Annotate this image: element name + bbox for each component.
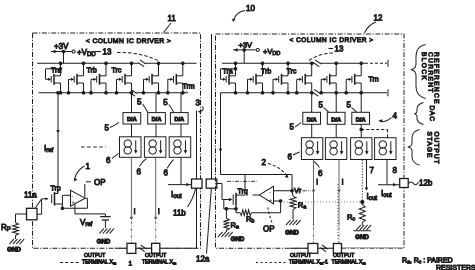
svg-text:3: 3 (196, 99, 201, 108)
current source 6 (block 11, 1st) (120, 137, 142, 158)
svg-text:< COLUMN IC DRIVER >: < COLUMN IC DRIVER > (86, 38, 171, 45)
node current source 4 tap (block 12) (360, 128, 363, 131)
transistor (block 12, 4th) (295, 62, 313, 94)
brace DAC (414, 103, 423, 125)
wire current source 4 output to pad 12b (378, 160, 400, 187)
label 12b (409, 179, 433, 188)
wire OP2 bottom input (274, 200, 281, 202)
wire bus to D/A 2 (block 12) (335, 93, 337, 113)
transistor Trn (block 12) (345, 62, 363, 94)
label 6 (block 11, left) (106, 154, 119, 166)
leader dashes (output terminal right) (256, 262, 287, 264)
label 12a (196, 189, 211, 264)
break between output pads (block 11) (139, 245, 147, 252)
svg-text:6: 6 (318, 169, 323, 178)
svg-text:Trc: Trc (112, 68, 122, 75)
svg-text:+3V: +3V (239, 41, 253, 50)
wire current source 1 output (block 11) (130, 157, 132, 217)
current source 7 (block 12, 3rd) (351, 138, 372, 160)
svg-text:13: 13 (103, 48, 112, 57)
svg-text:DAC: DAC (428, 106, 435, 122)
svg-text:6: 6 (106, 156, 111, 165)
transistor (block 11, 5th) (142, 62, 160, 94)
D/A converter 5 (block 12, 3rd) (352, 112, 370, 124)
wire current source 3 output (block 12) (362, 160, 368, 202)
brace REFERENCE CURRENT BLOCK (411, 45, 426, 99)
label OUTPUT TERMINAL Xn-1 (block 12) (289, 253, 328, 266)
wire OP1 bottom input to Vref (75, 204, 106, 214)
svg-text:OUTPUT: OUTPUT (433, 132, 440, 165)
svg-text:5: 5 (347, 101, 352, 110)
svg-text:1: 1 (86, 162, 91, 171)
wire right bus of block 11 (196, 111, 198, 249)
svg-text:-: - (72, 194, 74, 200)
svg-text:TERMINAL Xm: TERMINAL Xm (82, 260, 117, 266)
svg-text:D/A: D/A (127, 117, 137, 123)
svg-text:5: 5 (290, 123, 295, 132)
wire Trp gate bracket (41, 199, 43, 214)
wire pad 12a to Trq (217, 183, 222, 185)
node OP2 inverting input (279, 200, 282, 203)
transistor Trc (block 11) (115, 62, 133, 94)
svg-text:-: - (269, 189, 271, 195)
paired-resistor dotted link (281, 184, 361, 240)
wire bus to D/A 3 (block 11) (180, 93, 182, 113)
label DAC (428, 106, 435, 122)
current source 6 (block 11, 3rd) (169, 137, 191, 158)
svg-text:OP: OP (263, 225, 275, 234)
svg-text:GND: GND (355, 234, 369, 241)
svg-text:OUTPUT: OUTPUT (84, 253, 106, 259)
label 5 (block 12, right) (347, 101, 358, 113)
svg-text:TERMINAL Xm: TERMINAL Xm (142, 260, 177, 266)
wire line A (pad 12a to Vr) (221, 175, 293, 191)
label 1 (74, 162, 91, 182)
label 13 (block 11) (95, 48, 158, 61)
dashed wire near Trq (227, 180, 257, 182)
svg-text:OUTPUT: OUTPUT (290, 253, 312, 259)
svg-text:12a: 12a (196, 255, 210, 264)
svg-text:GND: GND (7, 247, 21, 254)
label OUTPUT STAGE (426, 132, 440, 165)
svg-text:+3V: +3V (54, 42, 69, 51)
block 12 border (COLUMN IC DRIVER) (216, 34, 405, 248)
svg-text:7: 7 (370, 166, 375, 175)
pad 12b (400, 179, 409, 188)
note Ra Rc paired resisters (402, 258, 475, 270)
label 5 (block 11, mid) (137, 98, 148, 113)
svg-text:2: 2 (262, 158, 267, 167)
D/A converter 5 (block 11, 2nd) (148, 113, 166, 124)
wire D/A to current source 2 (block 12) (335, 124, 337, 137)
svg-text:4: 4 (393, 112, 398, 121)
svg-text:Trb: Trb (87, 68, 97, 75)
gate bus (block 12) (221, 89, 389, 96)
label OUTPUT TERMINAL Xm-1 (block 11) (82, 253, 133, 268)
transistor Trm (block 11) (167, 62, 185, 94)
svg-text:< COLUMN IC DRIVER >: < COLUMN IC DRIVER > (289, 37, 373, 44)
supply +3V node (block 11) (51, 42, 96, 63)
svg-text:Tra: Tra (51, 68, 61, 75)
resistor Rb (236, 201, 281, 216)
resistor Ra (under Vr) (290, 191, 296, 220)
bottom rail (block 11) (115, 247, 197, 249)
resistor Rp (13, 214, 27, 239)
svg-text:OP: OP (94, 178, 106, 187)
ground (Rp) (7, 239, 24, 254)
resistor Rc (359, 202, 365, 226)
wire pad 11a to Trp (37, 213, 42, 215)
label OUTPUT TERMINAL Xn (block 12) (332, 253, 367, 266)
supply +3V node (block 12) (233, 41, 280, 64)
supply rail (block 12) (222, 60, 388, 67)
svg-text:10: 10 (246, 4, 255, 13)
label 5 (block 11, right) (163, 98, 173, 112)
wire OP2 top input to Vr (274, 190, 293, 192)
wire bus to D/A 1 (block 12) (311, 93, 313, 113)
label OP (block 11) (85, 178, 106, 197)
wire bus to D/A 1 (block 11) (131, 93, 133, 113)
svg-text:5: 5 (137, 98, 142, 107)
svg-text:GND: GND (231, 236, 245, 243)
label 11 (164, 14, 177, 33)
D/A converter 5 (block 11, 1st) (123, 113, 141, 124)
svg-text:6: 6 (288, 153, 293, 162)
wire Iout to pad 11b (168, 157, 192, 186)
capacitor Vref (100, 214, 110, 228)
current source 8 (block 12, 4th) (375, 138, 396, 160)
wire OP2 output stub (253, 194, 260, 196)
svg-text:Trp: Trp (51, 186, 61, 193)
svg-text:11b: 11b (173, 209, 186, 218)
svg-text:6: 6 (164, 169, 169, 178)
svg-text:5: 5 (319, 101, 324, 110)
D/A converter 5 (block 12, 1st) (303, 112, 321, 124)
svg-text:11a: 11a (24, 191, 37, 200)
leader dashes (output terminal left) (60, 262, 80, 264)
current source 6 (block 11, 2nd) (144, 137, 166, 158)
svg-text:12b: 12b (419, 179, 433, 188)
svg-text:STAGE: STAGE (426, 132, 433, 159)
node Ra junction (225, 208, 228, 211)
svg-text:Vr: Vr (294, 186, 302, 195)
transistor Tra (block 11) (46, 62, 62, 94)
svg-text:Trn: Trn (369, 77, 379, 84)
rail break (block 11) (138, 60, 146, 67)
wire D/A to current source 3 (block 12) (360, 124, 362, 137)
wire current source 2 output (block 11) (155, 157, 157, 217)
svg-text:Tra: Tra (223, 69, 233, 76)
ground (Ra under Vr) (285, 220, 301, 237)
pad 11a (27, 208, 38, 220)
svg-text:11: 11 (168, 14, 177, 23)
bottom rail (block 12) (290, 247, 403, 250)
svg-text:8: 8 (393, 166, 398, 175)
transistor Tra (block 12) (221, 62, 237, 94)
svg-text:D/A: D/A (356, 117, 366, 123)
node Trp drain (61, 207, 64, 210)
svg-text:OUTPUT: OUTPUT (145, 253, 167, 259)
svg-text:GND: GND (285, 230, 299, 237)
svg-text:13: 13 (335, 45, 344, 54)
transistor Trc (block 12) (272, 62, 290, 94)
svg-text:GND: GND (97, 239, 111, 246)
svg-text:Trq: Trq (238, 189, 248, 196)
label 2 (262, 158, 289, 178)
D/A converter 5 (block 11, 3rd) (170, 113, 188, 124)
label 6 (block 11, mid) (137, 159, 147, 177)
svg-text:D/A: D/A (307, 117, 317, 123)
continuation dashes (block 11) (81, 146, 106, 148)
label OUTPUT TERMINAL Xm (block 11) (142, 253, 177, 266)
ground (Vref, block 11) (97, 229, 114, 246)
wire Iref (Tra drain to Trp source) (56, 92, 60, 194)
pad 12a (input pad of block 12) (206, 179, 217, 188)
node Rc top (361, 200, 364, 203)
label 5 (block 12, left) (290, 123, 302, 132)
dashed wire right of Vr (295, 190, 312, 192)
label 5 (block 12, mid) (319, 101, 330, 113)
wire current source 2 output (block 12) (338, 160, 340, 226)
svg-text:D/A: D/A (152, 117, 162, 123)
wire Trq gate bracket (222, 184, 236, 209)
svg-text:Trm: Trm (183, 84, 195, 91)
svg-text:D/A: D/A (331, 117, 341, 123)
wire current source 1 output (block 12) (313, 160, 315, 226)
svg-text:TERMINAL Xm-1: TERMINAL Xm-1 (289, 260, 328, 266)
output pad Xm (block 11) (152, 243, 160, 253)
label 11b (173, 189, 196, 218)
label 4 (378, 112, 397, 123)
svg-text:6: 6 (137, 168, 142, 177)
node Trq drain junction (235, 208, 238, 211)
svg-text:12: 12 (374, 14, 383, 23)
wire D/A to current source 1 (block 11) (131, 124, 133, 137)
label 5 (block 11, left) (105, 123, 120, 133)
svg-text:1: 1 (129, 261, 133, 268)
wire bus to D/A 3 (block 12) (360, 93, 362, 113)
svg-text:Trc: Trc (287, 69, 297, 76)
transistor Trb (block 12) (246, 62, 264, 94)
wire D/A to current source 1 (block 12) (311, 124, 313, 137)
ground (Ra under Trq) (218, 232, 245, 243)
wire D/A to current source 3 (block 11) (180, 124, 182, 137)
ground (Rc) (354, 230, 372, 232)
wire OP1 feedback (62, 198, 87, 208)
output pad Xn (block 12) (333, 244, 341, 254)
output pad Xn-1 (block 12) (308, 244, 318, 254)
transistor (block 12, 5th) (320, 62, 338, 94)
svg-text:TERMINAL Xm: TERMINAL Xm (332, 260, 367, 266)
pad 11b (192, 179, 203, 188)
rail break (block 12) (313, 60, 321, 67)
svg-text:5: 5 (105, 124, 110, 133)
gate bus break (block 11) (129, 89, 137, 96)
label OP (block 12) (263, 208, 275, 234)
transistor Trb (block 11) (90, 62, 108, 94)
wire pad 12a vertical (211, 34, 213, 179)
wire D/A to current source 2 (block 11) (155, 124, 157, 137)
transistor (block 11, 2nd) (67, 62, 85, 94)
gate bus break (block 12) (312, 89, 320, 96)
label 6 (block 12, left) (288, 152, 300, 162)
output pad Xm-1 (block 11) (127, 243, 136, 253)
gate bus (block 11) (39, 92, 189, 94)
current source 6 (block 12, 2nd) (325, 138, 346, 160)
current source 6 (block 12, 1st) (301, 138, 322, 160)
op-amp OP2 (block 12) (259, 186, 273, 204)
break between output pads (block 12) (320, 245, 328, 252)
supply rail (block 11) (37, 62, 197, 64)
svg-text:BLOCK: BLOCK (420, 52, 427, 81)
transistor Trq (block 12) (224, 175, 245, 209)
wire bus to D/A 2 (block 11) (155, 93, 157, 113)
resistor Ra (under Trq) (223, 209, 229, 232)
svg-text:Trb: Trb (261, 69, 271, 76)
label 13 (block 12) (309, 45, 344, 61)
label 10 (232, 4, 256, 22)
svg-text:D/A: D/A (174, 117, 184, 123)
label 3 (196, 99, 204, 114)
wire to current source 4 (block 12) (361, 130, 387, 138)
D/A converter 5 (block 12, 2nd) (327, 112, 345, 124)
svg-text:+: + (269, 198, 272, 204)
label 11a (24, 191, 41, 208)
transistor Trp (block 11) (42, 192, 63, 208)
label 6 (block 12) (314, 162, 323, 179)
svg-text:+: + (72, 201, 75, 207)
svg-text:5: 5 (163, 98, 168, 107)
node Vr (291, 190, 294, 193)
wire reference branch (block 12) (219, 93, 223, 175)
svg-text:OUTPUT: OUTPUT (333, 253, 355, 259)
block 11 border (COLUMN IC DRIVER) (33, 33, 201, 248)
label 12 (365, 14, 383, 34)
brace OUTPUT STAGE (408, 130, 420, 166)
label REFERENCE CURRENT BLOCK (420, 52, 440, 105)
wire OP1 top input (62, 195, 70, 204)
op-amp OP1 (block 11) (71, 190, 86, 206)
svg-text:RESISTERS: RESISTERS (436, 265, 475, 270)
label 6 (block 11, right) (164, 160, 174, 178)
